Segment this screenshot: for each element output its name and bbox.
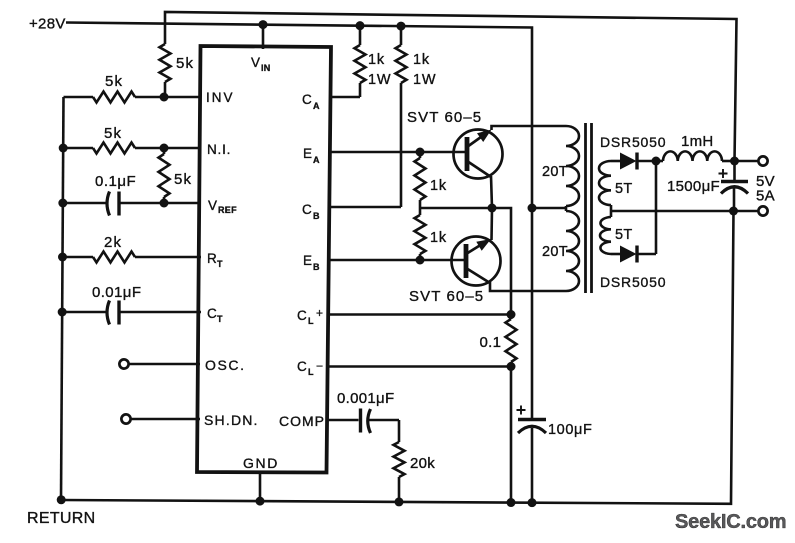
resistor 1k 1W on CA: [330, 21, 392, 97]
svg-text:L: L: [308, 367, 314, 377]
pin GND label: [243, 455, 279, 471]
resistor 1k 1W on CB: [329, 22, 436, 207]
svg-text:1k: 1k: [368, 52, 385, 68]
capacitor 100uF input filter: [517, 208, 593, 507]
transformer secondary 5T upper winding: [599, 161, 633, 205]
resistor 2k on RT line: [58, 234, 201, 263]
svg-text:DSR5050: DSR5050: [600, 134, 666, 150]
svg-text:A: A: [313, 155, 320, 165]
pin SH.DN label: [204, 412, 259, 428]
resistor 5k N.I. to VREF: [159, 148, 193, 203]
svg-text:C: C: [297, 308, 307, 323]
svg-text:T: T: [217, 314, 223, 324]
wire EB line to Q2 base: [329, 256, 466, 265]
svg-text:+28V: +28V: [29, 16, 66, 33]
pin INV label: [206, 90, 235, 105]
svg-text:1k: 1k: [430, 230, 447, 246]
wire Q2 collector to primary bottom: [490, 282, 566, 291]
svg-text:20k: 20k: [410, 455, 435, 472]
svg-text:IN: IN: [261, 63, 271, 73]
wire VIN drop from +28V rail: [259, 20, 268, 49]
resistor 1k EA to common: [415, 152, 447, 208]
svg-text:SeekIC.com: SeekIC.com: [675, 511, 786, 533]
pin CL+ label: [297, 306, 323, 326]
op-amp U1 PWM regulator IC box: [197, 46, 331, 473]
wire +28V rail to transformer center-tap feed: [66, 23, 532, 209]
svg-text:C: C: [207, 306, 217, 321]
watermark SeekIC.com: [675, 511, 786, 533]
svg-text:T: T: [217, 259, 223, 269]
svg-text:COMP: COMP: [279, 413, 325, 429]
transistor Q1 SVT 60-5: [407, 109, 503, 179]
transformer primary 20T lower winding: [542, 206, 579, 291]
svg-text:R: R: [207, 251, 217, 266]
junction dot left rail bottom: [57, 495, 66, 504]
pin CL- label: [297, 359, 323, 377]
svg-text:V: V: [208, 198, 217, 213]
svg-text:1k: 1k: [413, 52, 430, 68]
svg-text:B: B: [313, 262, 320, 272]
wire CL- line: [328, 365, 511, 368]
svg-text:5T: 5T: [615, 227, 633, 243]
transformer primary 20T upper winding: [542, 126, 579, 206]
resistor 20k COMP to return: [394, 420, 436, 506]
wire 5V feedback top line and right border to output node: [165, 12, 737, 161]
wire Q1 collector to common node: [491, 176, 492, 208]
capacitor 1500uF output: [667, 157, 748, 212]
pin VIN label: [251, 55, 271, 73]
capacitor 0.001uF on COMP: [327, 390, 399, 433]
svg-text:20T: 20T: [542, 244, 568, 260]
pin RT label: [207, 251, 223, 269]
svg-text:C: C: [302, 92, 312, 107]
transformer secondary 5T lower winding: [600, 205, 633, 254]
terminal OSC input: [119, 359, 200, 368]
svg-text:2k: 2k: [104, 234, 122, 251]
svg-text:RETURN: RETURN: [27, 510, 95, 527]
capacitor 0.1uF on VREF line: [58, 173, 201, 216]
terminal SH.DN input: [121, 414, 200, 423]
svg-text:E: E: [303, 253, 312, 268]
wire common node line and drop to CL+: [420, 204, 511, 315]
svg-text:100μF: 100μF: [548, 422, 592, 438]
wire CL+ line: [328, 310, 515, 319]
wire left ground rail: [61, 97, 64, 500]
svg-text:1W: 1W: [368, 72, 391, 88]
svg-text:OSC.: OSC.: [205, 357, 246, 373]
svg-text:SH.DN.: SH.DN.: [204, 412, 259, 428]
svg-text:1500μF: 1500μF: [667, 178, 720, 195]
svg-text:5k: 5k: [174, 171, 192, 188]
pin COMP label: [279, 413, 325, 429]
svg-text:−: −: [316, 359, 323, 373]
pin CB label: [302, 202, 320, 221]
svg-text:0.001μF: 0.001μF: [337, 390, 394, 407]
diode DSR5050 lower: [600, 246, 666, 291]
svg-text:DSR5050: DSR5050: [600, 274, 666, 290]
svg-text:0.01μF: 0.01μF: [92, 284, 141, 301]
svg-text:A: A: [313, 101, 320, 111]
svg-text:REF: REF: [218, 205, 237, 215]
svg-text:N.I.: N.I.: [207, 142, 231, 157]
svg-text:1k: 1k: [430, 178, 447, 194]
resistor 0.1 current sense: [480, 315, 517, 372]
svg-text:+: +: [316, 306, 323, 320]
svg-text:5k: 5k: [104, 125, 122, 142]
wire secondary center tap to output return: [611, 210, 734, 213]
resistor 5k N.I. left: [59, 125, 201, 154]
svg-text:0.1: 0.1: [480, 334, 502, 351]
svg-text:5T: 5T: [615, 181, 633, 197]
svg-text:C: C: [297, 359, 307, 374]
pin CA label: [302, 92, 320, 111]
wire sense drop to return rail: [507, 367, 516, 508]
svg-text:5k: 5k: [105, 73, 123, 90]
svg-text:C: C: [302, 202, 312, 217]
transistor Q2 SVT 60-5: [409, 237, 501, 306]
wire Q2 emitter to common node: [490, 208, 493, 240]
resistor 5k feedback upper: [160, 44, 195, 97]
terminal output negative: [729, 206, 768, 215]
resistor 1k common to EB: [415, 208, 447, 260]
resistor 5k INV to ground rail: [64, 73, 202, 103]
terminal output positive: [735, 156, 768, 165]
node RETURN label: [27, 510, 95, 527]
pin N.I. label: [207, 142, 231, 157]
pin EB label: [303, 253, 320, 272]
svg-text:B: B: [313, 211, 320, 221]
svg-text:SVT 60–5: SVT 60–5: [409, 288, 484, 305]
svg-text:5A: 5A: [756, 188, 775, 205]
wire center tap to +28V: [528, 204, 567, 213]
svg-text:INV: INV: [206, 90, 235, 105]
svg-text:SVT 60–5: SVT 60–5: [407, 109, 482, 126]
svg-text:1mH: 1mH: [681, 133, 714, 150]
pin OSC label: [205, 357, 246, 373]
wire bottom RETURN rail and right border to output return: [61, 211, 734, 504]
svg-text:5k: 5k: [176, 55, 194, 72]
node 5V 5A output labels: [756, 173, 775, 205]
svg-text:0.1μF: 0.1μF: [95, 173, 136, 190]
node +28V input label: [29, 16, 66, 33]
wire rectifier cathode bus: [652, 157, 661, 255]
svg-text:V: V: [251, 55, 260, 70]
svg-text:E: E: [303, 146, 312, 161]
svg-text:GND: GND: [243, 455, 279, 471]
wire EA line to Q1 base: [329, 148, 467, 157]
svg-text:L: L: [308, 316, 314, 326]
capacitor 0.01uF on CT line: [58, 284, 201, 325]
inductor 1mH: [656, 133, 735, 161]
transformer core: [586, 123, 592, 293]
pin VREF label: [208, 198, 237, 215]
diode DSR5050 upper: [600, 134, 666, 170]
pin CT label: [207, 306, 223, 324]
wire Q1 emitter to primary top: [492, 126, 567, 130]
svg-text:20T: 20T: [542, 164, 568, 180]
pin EA label: [303, 146, 320, 165]
svg-text:1W: 1W: [413, 72, 436, 88]
wire GND drop to return rail: [256, 472, 265, 506]
